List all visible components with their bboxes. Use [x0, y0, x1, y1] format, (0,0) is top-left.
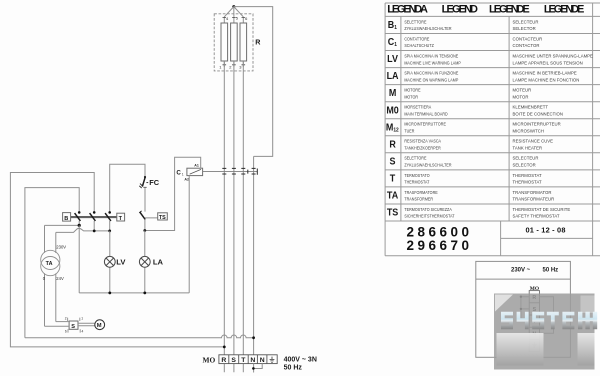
svg-text:T: T — [119, 216, 123, 222]
svg-text:MO: MO — [530, 286, 539, 292]
svg-text:LEGENDA: LEGENDA — [387, 3, 428, 15]
node LA on rail — [143, 292, 146, 295]
wire 24V to S — [56, 321, 69, 323]
svg-text:MACHINE LIVE WARNING LAMP: MACHINE LIVE WARNING LAMP — [404, 60, 461, 66]
svg-text:TRANSFORMER: TRANSFORMER — [404, 196, 433, 202]
svg-text:LA: LA — [153, 258, 164, 267]
svg-text:LEGENDE: LEGENDE — [489, 3, 530, 15]
label A1 — [194, 164, 199, 168]
legend row texts col3 (x=512.5) — [513, 19, 593, 218]
svg-text:SPIA MACCHINA IN TENSIONE: SPIA MACCHINA IN TENSIONE — [404, 53, 458, 59]
svg-text:CONTACTEUR: CONTACTEUR — [513, 36, 543, 41]
node blade3 lower junction — [108, 230, 111, 233]
selector B1 contact blade 3 — [105, 211, 111, 231]
svg-text:SCHALTSCHUTZ: SCHALTSCHUTZ — [404, 43, 434, 49]
svg-text:RESISTANCE CUVE: RESISTANCE CUVE — [513, 139, 554, 144]
svg-text:TA: TA — [387, 190, 398, 202]
svg-text:TUER: TUER — [404, 128, 414, 134]
wire phase T vertical — [242, 61, 244, 372]
neutral jumper below terminals — [254, 364, 263, 373]
lamp LA — [139, 231, 150, 293]
wire coil A1 to FC/TS junction — [145, 157, 201, 230]
terminal strip MO vertical — [529, 291, 539, 352]
svg-text:MAIN TERMINAL BOARD: MAIN TERMINAL BOARD — [404, 111, 447, 117]
svg-text:SELECTOR: SELECTOR — [513, 26, 536, 31]
svg-text:SAFETY THERMOSTAT: SAFETY THERMOSTAT — [513, 214, 560, 219]
contactor contact marks on phase S — [232, 168, 236, 174]
svg-text:230V: 230V — [56, 245, 66, 250]
contactor C1 coil — [187, 168, 203, 175]
label MO (single phase) — [530, 286, 539, 292]
svg-text:ZYKLUSWAEHLSCHALTER: ZYKLUSWAEHLSCHALTER — [404, 162, 451, 168]
svg-text:M: M — [389, 88, 396, 100]
label A2 — [184, 178, 189, 182]
svg-text:B: B — [64, 216, 68, 222]
svg-text:1: 1 — [182, 172, 184, 176]
limit switch FC — [139, 176, 148, 212]
label R — [255, 38, 261, 47]
label 230V — [56, 245, 66, 250]
wire coil A2 down to lamp rail — [188, 176, 190, 293]
svg-text:TA: TA — [46, 261, 53, 267]
svg-text:THERMOSTAT: THERMOSTAT — [404, 179, 430, 185]
svg-text:4: 4 — [82, 330, 84, 334]
svg-text:MICROINTERRUPTEUR: MICROINTERRUPTEUR — [513, 121, 561, 126]
label 400V ~ 3N — [284, 357, 317, 364]
node phase feed at terminal R — [223, 346, 226, 349]
microswitch S box — [68, 318, 81, 333]
svg-text:LAMPE MACHINE EN FONCTION: LAMPE MACHINE EN FONCTION — [513, 77, 580, 82]
svg-text:MOTOR: MOTOR — [513, 94, 529, 99]
svg-text:MICROINTERRUTTORE: MICROINTERRUTTORE — [404, 121, 446, 127]
wire R to N (right side) — [540, 297, 554, 334]
svg-text:LEGENDE: LEGENDE — [544, 3, 584, 15]
svg-text:S: S — [390, 156, 397, 168]
svg-text:S: S — [231, 357, 236, 364]
svg-text:TRANSFORMATEUR: TRANSFORMATEUR — [513, 196, 555, 201]
symbol column — [386, 20, 399, 219]
svg-text:TRANSFORMATOR: TRANSFORMATOR — [513, 190, 552, 195]
lamp LV — [104, 231, 115, 293]
svg-text:TANKHEIZKOERPER: TANKHEIZKOERPER — [404, 145, 440, 151]
svg-text:ZYKLUSWAEHLSCHALTER: ZYKLUSWAEHLSCHALTER — [404, 26, 451, 32]
wire phase S vertical — [233, 61, 235, 372]
svg-text:SICHERHEITSTHERMOSTAT: SICHERHEITSTHERMOSTAT — [404, 213, 455, 219]
node top star point — [232, 5, 235, 8]
wire neutral vertical — [253, 156, 255, 354]
node TS junction — [143, 229, 146, 232]
header LEGENDA LEGEND LEGENDE LEGENDE — [387, 3, 584, 15]
contactor contact marks on phase R — [222, 168, 226, 174]
wire 0 to S — [45, 325, 70, 327]
svg-text:THERMOSTAT: THERMOSTAT — [513, 179, 542, 184]
label 50 Hz — [284, 364, 303, 371]
label C1 — [176, 169, 184, 176]
label 0 — [43, 276, 46, 281]
code numbers — [407, 224, 566, 253]
svg-text:MASCHINE IN BETRIEB-LAMPE: MASCHINE IN BETRIEB-LAMPE — [513, 70, 577, 75]
wire W2 blades 2,3 to TA primary with hop — [56, 228, 110, 232]
svg-text:N: N — [260, 357, 265, 364]
info box frame — [476, 261, 571, 357]
thermostat T box — [117, 213, 125, 222]
node blade2 lower junction — [93, 230, 96, 233]
wire phase R vertical — [223, 61, 225, 372]
wire blade1 to TA primary (W1) — [45, 224, 80, 226]
legend table — [385, 3, 600, 256]
terminal letters R S T N N — [221, 357, 264, 364]
selector B1 box — [63, 213, 71, 222]
svg-text:230V ~: 230V ~ — [511, 268, 531, 274]
lamp rail wire — [79, 292, 189, 294]
svg-text:SPIA MACCHINA IN FUNZIONE: SPIA MACCHINA IN FUNZIONE — [404, 70, 458, 76]
svg-text:A1: A1 — [194, 164, 199, 168]
svg-text:R: R — [255, 38, 261, 47]
svg-text:TANK HEATER: TANK HEATER — [513, 145, 543, 150]
pin numbers of S — [65, 317, 84, 334]
transformer TA — [41, 225, 60, 326]
pin numbers 4 5 6 (top) and 1 2 3 (bottom) of R — [219, 16, 248, 70]
svg-text:THERMOSTAT DE SICURITE: THERMOSTAT DE SICURITE — [513, 207, 571, 212]
label LA — [153, 258, 164, 267]
terminal earth symbol — [270, 357, 275, 363]
svg-text:MORSETTIERA: MORSETTIERA — [404, 104, 431, 110]
svg-text:TERMOSTATO: TERMOSTATO — [404, 172, 430, 178]
svg-text:R: R — [221, 357, 226, 364]
svg-text:MOTEUR: MOTEUR — [513, 87, 532, 92]
wire fan from star node to heater elements — [224, 7, 243, 17]
svg-text:400V ~ 3N: 400V ~ 3N — [284, 357, 317, 364]
legend row texts col2 (x=404.3) — [404, 19, 461, 219]
svg-text:SELETTORE: SELETTORE — [404, 155, 426, 161]
svg-text:MACHINE ON WARNING LAMP: MACHINE ON WARNING LAMP — [404, 77, 458, 83]
terminal board MO boxes — [219, 355, 277, 364]
node LV on rail — [108, 292, 111, 295]
node jumper R — [520, 296, 522, 298]
svg-text:S: S — [71, 324, 75, 330]
earth symbol in strip — [532, 342, 536, 347]
wire B1 pole3 feed to FC — [110, 164, 145, 212]
second frame wire: neutral to B1 pole1 — [25, 188, 79, 338]
terminal board MO label — [203, 355, 216, 364]
svg-text:296670: 296670 — [407, 238, 473, 253]
svg-text:24V: 24V — [56, 276, 64, 281]
svg-text:FC: FC — [149, 178, 160, 187]
svg-text:SELECTOR: SELECTOR — [513, 162, 536, 167]
svg-text:LV: LV — [116, 258, 126, 267]
svg-text:BOITE DE CONNECTION: BOITE DE CONNECTION — [513, 111, 563, 116]
svg-text:LEGEND: LEGEND — [442, 3, 478, 15]
label 24V — [56, 276, 64, 281]
node neutral jumper — [252, 367, 255, 370]
neutral bottom wire with hops over R S T — [25, 335, 254, 338]
motor M — [95, 320, 105, 330]
jumper wires bridging R S T — [521, 297, 529, 321]
resistor R heater element 1 — [221, 17, 228, 67]
svg-text:TS: TS — [387, 207, 399, 219]
selector B1 contact blade 1 — [75, 211, 81, 225]
svg-text:TERMOSTATO SICUREZZA: TERMOSTATO SICUREZZA — [404, 206, 452, 212]
svg-text:LA: LA — [387, 71, 399, 83]
outer frame wire: phase to B1 pole2 and bottom feed — [10, 173, 224, 347]
selector B1 contact blade 2 — [90, 211, 96, 231]
svg-text:T: T — [390, 173, 396, 185]
dashed enclosure of resistor bank R — [214, 14, 253, 71]
contactor contact marks on phase T — [241, 168, 245, 174]
wire S to motor M (double) — [78, 323, 95, 325]
svg-text:6: 6 — [65, 330, 67, 334]
svg-text:CONTACTOR: CONTACTOR — [513, 43, 540, 48]
safety thermostat TS box — [158, 213, 168, 221]
svg-text:N: N — [250, 357, 255, 364]
svg-text:M0: M0 — [386, 105, 398, 117]
label LV — [116, 258, 126, 267]
contactor contact marks on neutral — [248, 168, 257, 174]
svg-text:MOTORE: MOTORE — [404, 87, 420, 93]
svg-text:RESISTENZA VASCA: RESISTENZA VASCA — [404, 138, 441, 144]
svg-text:SELETTORE: SELETTORE — [404, 19, 426, 25]
svg-text:50 Hz: 50 Hz — [543, 268, 559, 274]
svg-text:R: R — [389, 139, 396, 151]
selector B1 mechanical bar — [71, 216, 117, 218]
svg-text:M: M — [97, 323, 102, 329]
svg-text:LAMPE APPAREIL SOUS TENSION: LAMPE APPAREIL SOUS TENSION — [513, 60, 583, 65]
label 230V ~ 50 Hz — [511, 268, 558, 274]
resistor R heater element 3 — [240, 17, 247, 67]
svg-text:MICROSWITCH: MICROSWITCH — [513, 128, 544, 133]
svg-text:TS: TS — [159, 215, 166, 221]
wire blade1 down to lamp rail — [78, 225, 80, 293]
svg-text:KLEMMENBRETT: KLEMMENBRETT — [513, 104, 549, 109]
svg-text:CONTATTORE: CONTATTORE — [404, 36, 429, 42]
svg-text:50 Hz: 50 Hz — [284, 364, 303, 371]
svg-text:SELECTEUR: SELECTEUR — [513, 156, 539, 161]
node neutral at terminal — [252, 336, 255, 339]
svg-text:01 - 12 - 08: 01 - 12 - 08 — [525, 226, 565, 235]
terminal strip letters R S T N — [532, 295, 536, 338]
SYSTEM pixel letters — [501, 312, 597, 330]
svg-text:C: C — [176, 169, 181, 176]
wire star node to N drop (right side) — [234, 7, 273, 157]
svg-text:1: 1 — [81, 317, 83, 321]
svg-text:2: 2 — [65, 317, 67, 321]
table borders — [385, 3, 600, 256]
svg-text:MASCHINE UNTER SPANNUNG-LAMPE: MASCHINE UNTER SPANNUNG-LAMPE — [513, 53, 593, 58]
svg-text:MO: MO — [203, 355, 216, 364]
svg-text:LV: LV — [387, 54, 398, 66]
node jumper S — [520, 308, 522, 310]
svg-text:SELECTEUR: SELECTEUR — [513, 19, 539, 24]
svg-text:TRASFORMATORE: TRASFORMATORE — [404, 189, 438, 195]
contactor main contact link line — [203, 171, 258, 173]
resistor R heater element 2 — [231, 17, 238, 67]
svg-text:THERMOSTAT: THERMOSTAT — [513, 173, 542, 178]
safety thermostat TS contact — [139, 211, 158, 231]
node blade1 junction — [78, 224, 81, 227]
svg-text:A2: A2 — [184, 178, 189, 182]
svg-text:MOTOR: MOTOR — [404, 94, 418, 100]
label FC — [149, 178, 160, 187]
